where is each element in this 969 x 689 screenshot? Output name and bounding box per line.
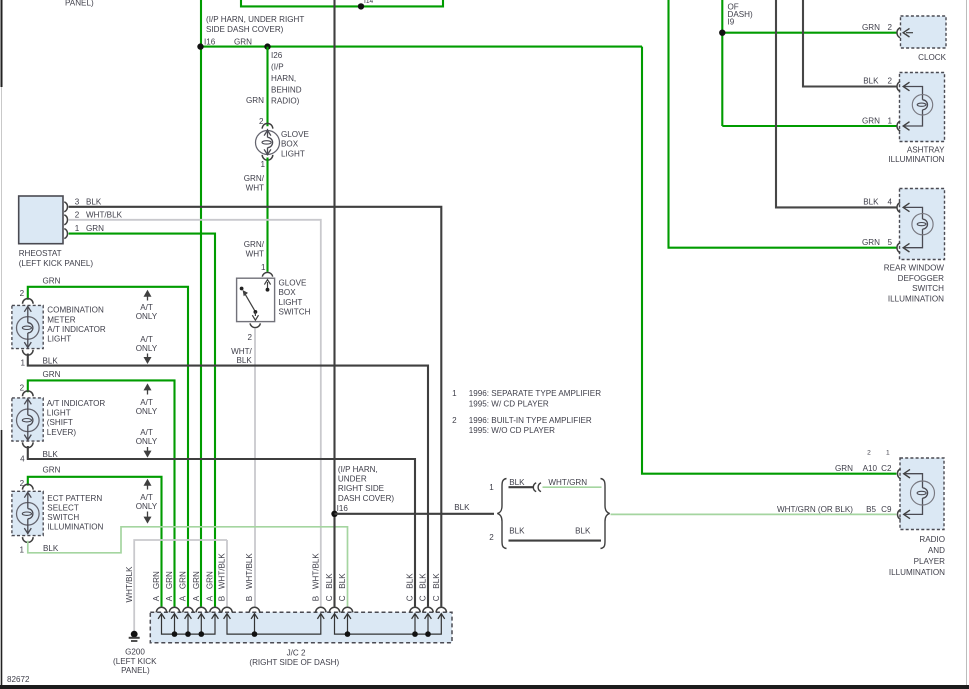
J/C2 internal bus A GRN group	[162, 614, 216, 634]
svg-text:RADIO): RADIO)	[271, 97, 300, 106]
svg-text:B WHT/BLK: B WHT/BLK	[218, 553, 227, 602]
ground G200	[131, 631, 138, 638]
svg-text:GRN: GRN	[43, 465, 61, 474]
svg-text:BEHIND: BEHIND	[271, 86, 302, 95]
svg-text:PANEL): PANEL)	[65, 0, 94, 8]
svg-text:1: 1	[261, 263, 266, 272]
svg-text:2: 2	[867, 450, 871, 457]
svg-text:PLAYER: PLAYER	[914, 557, 945, 566]
svg-text:ONLY: ONLY	[136, 437, 158, 446]
connector arc radio pin C9	[897, 509, 910, 519]
wire GRN I9 dot to clock pin2	[722, 32, 896, 34]
svg-text:G200: G200	[125, 648, 145, 657]
svg-text:GLOVE: GLOVE	[279, 279, 307, 288]
svg-text:A GRN: A GRN	[165, 571, 174, 601]
svg-text:SWITCH: SWITCH	[279, 308, 311, 317]
wire GRN vertical x642 from y46 to radio	[642, 47, 897, 474]
wire WHT/BLK G200 branch from x227 to ground	[134, 540, 227, 632]
connector arc shift lever lamp pin2	[23, 391, 34, 396]
wire BLK rheostat pin3 to x441 down to J/C2	[69, 207, 442, 607]
connector arc clock pin2	[897, 28, 913, 38]
svg-text:1995: W/ CD PLAYER: 1995: W/ CD PLAYER	[469, 399, 549, 408]
svg-text:LIGHT: LIGHT	[281, 149, 305, 158]
svg-text:BLK: BLK	[509, 478, 525, 487]
svg-text:2: 2	[452, 416, 457, 425]
svg-text:AND: AND	[928, 546, 945, 555]
connector arc rheostat pin3	[64, 202, 67, 212]
connector arc glove box light pin2	[262, 123, 273, 128]
svg-text:5: 5	[887, 238, 892, 247]
svg-text:ONLY: ONLY	[136, 312, 158, 321]
border right faint	[966, 0, 968, 685]
svg-text:1: 1	[75, 224, 80, 233]
annotation A/T ONLY down arrow section1	[147, 354, 149, 360]
lamp glove box light	[256, 129, 280, 156]
svg-text:A/T: A/T	[140, 303, 153, 312]
annotation A/T ONLY up arrow section3	[147, 483, 149, 490]
connector arc combination meter pin1	[23, 350, 34, 355]
svg-text:LIGHT: LIGHT	[279, 298, 303, 307]
svg-text:(RIGHT SIDE OF DASH): (RIGHT SIDE OF DASH)	[249, 658, 339, 667]
svg-text:A/T: A/T	[140, 398, 153, 407]
svg-text:BLK: BLK	[236, 356, 252, 365]
svg-text:A GRN: A GRN	[179, 571, 188, 601]
svg-text:1: 1	[886, 450, 890, 457]
svg-text:A GRN: A GRN	[206, 571, 215, 601]
wire GRN vertical x722.3 I9 from top	[721, 0, 723, 126]
connector arc glove box light pin1	[262, 155, 273, 160]
wire BLK from I16 dot to brace	[335, 513, 495, 515]
svg-text:SELECT: SELECT	[47, 503, 79, 512]
connector J/C2 pin A x188	[183, 607, 193, 619]
connector J/C2 pin C x347.5	[342, 607, 352, 619]
connector arc radio pin C2	[897, 469, 910, 479]
connector arc rheostat pin2	[64, 215, 67, 225]
wire BLK shift lever lamp pin4 to x415 down to J/C2	[28, 446, 415, 607]
svg-text:WHT/GRN: WHT/GRN	[548, 478, 587, 487]
connector arc defogger pin4	[897, 202, 910, 212]
connector arc glove box light switch pin1	[262, 272, 272, 276]
svg-text:C BLK: C BLK	[406, 573, 415, 601]
node glove box branch dot	[264, 43, 270, 49]
wire WHT/BLK switch to J/C2	[254, 328, 256, 606]
node I9 junction dot	[719, 30, 725, 36]
svg-text:RADIO: RADIO	[919, 535, 945, 544]
connector arc defogger pin5	[897, 243, 910, 253]
wire WHT/GRN option1	[543, 486, 602, 488]
svg-text:C2: C2	[881, 464, 892, 473]
svg-text:ILLUMINATION: ILLUMINATION	[47, 523, 103, 532]
svg-text:WHT: WHT	[246, 250, 264, 259]
connector J/C2 pin C x334.5	[329, 607, 339, 619]
svg-text:C BLK: C BLK	[338, 573, 347, 601]
svg-text:J/C 2: J/C 2	[287, 649, 306, 658]
connector J/C2 pin A x201.3	[196, 607, 206, 619]
svg-text:GRN/: GRN/	[244, 240, 265, 249]
svg-text:UNDER: UNDER	[338, 475, 367, 484]
connector arc ashtray pin1	[897, 121, 910, 131]
svg-text:REAR WINDOW: REAR WINDOW	[884, 263, 945, 272]
wire GRN combination meter pin2 to x188 down to J/C2	[28, 287, 188, 607]
wire GRN rheostat pin1 to x215 down to J/C2	[69, 234, 215, 607]
connector J/C2 pin B x254.5	[249, 607, 259, 619]
annotation A/T ONLY down arrow section2	[147, 447, 149, 453]
lamp U A/T indicator light shift lever	[12, 398, 43, 441]
svg-text:B WHT/BLK: B WHT/BLK	[312, 553, 321, 602]
svg-text:4: 4	[20, 454, 25, 463]
svg-text:HARN,: HARN,	[271, 74, 296, 83]
svg-text:C BLK: C BLK	[419, 573, 428, 601]
connector J/C2 pin B x227	[222, 607, 232, 619]
svg-text:METER: METER	[47, 315, 75, 324]
svg-text:WHT/BLK: WHT/BLK	[125, 566, 134, 603]
connector J/C2 pin C x415	[410, 607, 420, 619]
svg-text:1: 1	[19, 546, 24, 555]
svg-text:1996: SEPARATE TYPE AMPLIFIER: 1996: SEPARATE TYPE AMPLIFIER	[469, 389, 601, 398]
connector arc shift lever lamp pin4	[23, 442, 34, 447]
wire BLK option1	[509, 486, 534, 488]
svg-text:A/T: A/T	[140, 493, 153, 502]
svg-text:LIGHT: LIGHT	[47, 335, 71, 344]
lamp radio internal	[905, 474, 935, 515]
wire BLK vertical x803 from top to ashtray pin2	[803, 0, 897, 87]
border left middle faint	[1, 87, 3, 430]
connector double arc option1	[533, 483, 536, 492]
svg-text:GLOVE: GLOVE	[281, 130, 309, 139]
svg-text:4: 4	[887, 197, 892, 206]
svg-text:2: 2	[20, 289, 25, 298]
svg-text:82672: 82672	[7, 675, 30, 684]
svg-text:1: 1	[20, 359, 25, 368]
connector arc ect lamp pin1	[23, 537, 34, 542]
wire BLK ect lamp pin1 pale to x347.5 down to J/C2	[28, 527, 348, 607]
svg-text:GRN: GRN	[835, 464, 853, 473]
svg-text:DASH COVER): DASH COVER)	[338, 494, 395, 503]
svg-text:GRN: GRN	[246, 96, 264, 105]
svg-text:WHT/BLK: WHT/BLK	[86, 211, 123, 220]
svg-text:ONLY: ONLY	[136, 407, 158, 416]
svg-text:GRN/: GRN/	[244, 174, 265, 183]
wire GRN vertical to glove box light	[266, 47, 268, 127]
component ashtray illumination box	[900, 73, 945, 142]
border bottom bar	[0, 685, 969, 689]
svg-text:1995: W/O CD PLAYER: 1995: W/O CD PLAYER	[469, 426, 555, 435]
svg-text:PANEL): PANEL)	[121, 666, 150, 675]
svg-text:C BLK: C BLK	[432, 573, 441, 601]
svg-text:1: 1	[260, 160, 265, 169]
svg-text:WHT: WHT	[246, 184, 264, 193]
svg-text:GRN: GRN	[86, 224, 104, 233]
wire BLK combination meter pin1 to x428 down to J/C2	[28, 354, 428, 607]
svg-text:A/T: A/T	[140, 428, 153, 437]
svg-text:DEFOGGER: DEFOGGER	[898, 274, 944, 283]
svg-text:WHT/GRN (OR BLK): WHT/GRN (OR BLK)	[777, 505, 853, 514]
svg-text:2: 2	[75, 211, 80, 220]
brace right	[601, 479, 610, 549]
svg-text:LIGHT: LIGHT	[47, 409, 71, 418]
svg-text:GRN: GRN	[234, 38, 252, 47]
svg-text:BLK: BLK	[863, 77, 879, 86]
svg-text:I14: I14	[364, 0, 373, 5]
wire BLK option2	[509, 540, 602, 542]
svg-text:C9: C9	[881, 505, 892, 514]
svg-text:(SHIFT: (SHIFT	[47, 418, 73, 427]
connector J/C2 pin A x161.5	[156, 607, 166, 619]
svg-text:1996: BUILT-IN TYPE AMPLIFIER: 1996: BUILT-IN TYPE AMPLIFIER	[469, 416, 592, 425]
svg-text:GRN: GRN	[43, 370, 61, 379]
svg-text:B5: B5	[866, 505, 876, 514]
lamp defogger internal	[905, 207, 934, 247]
switch pivot dot	[254, 310, 258, 314]
svg-text:GRN: GRN	[862, 238, 880, 247]
svg-text:1: 1	[887, 117, 892, 126]
svg-text:ILLUMINATION: ILLUMINATION	[888, 155, 944, 164]
lamp ashtray internal	[905, 87, 933, 127]
svg-text:A/T: A/T	[140, 335, 153, 344]
svg-text:BLK: BLK	[863, 197, 879, 206]
wire GRN top net horizontal y6	[241, 0, 443, 6]
svg-text:B WHT/BLK: B WHT/BLK	[245, 553, 254, 602]
wire BLK vertical x776 from top to defogger pin4	[776, 0, 897, 207]
svg-text:(LEFT KICK: (LEFT KICK	[113, 657, 157, 666]
svg-text:C BLK: C BLK	[325, 573, 334, 601]
svg-text:LEVER): LEVER)	[47, 428, 77, 437]
svg-text:BLK: BLK	[86, 197, 102, 206]
connector arc ect lamp pin2	[23, 484, 34, 489]
svg-text:2: 2	[489, 533, 494, 542]
connector J/C2 pin B x320.8	[316, 607, 326, 619]
connector arc glove box light switch pin2	[250, 323, 260, 327]
J/C2 internal bus B WHT/BLK group	[227, 614, 321, 634]
svg-text:GRN: GRN	[862, 117, 880, 126]
component rear window defogger switch illumination box	[900, 189, 945, 260]
svg-text:A GRN: A GRN	[192, 571, 201, 601]
svg-text:I16: I16	[204, 38, 216, 47]
wire GRN vertical I16 x201 from top to J/C2	[200, 0, 202, 607]
node I16 lower junction dot	[331, 511, 337, 517]
component clock box	[901, 16, 947, 48]
svg-text:GRN: GRN	[43, 277, 61, 286]
switch contact dot left	[240, 287, 244, 291]
wire GRN/WHT from lamp to switch	[266, 158, 268, 272]
switch U glove box light switch box	[237, 278, 275, 321]
svg-text:(LEFT KICK PANEL): (LEFT KICK PANEL)	[19, 259, 94, 268]
svg-text:ONLY: ONLY	[136, 502, 158, 511]
svg-text:ASHTRAY: ASHTRAY	[907, 145, 945, 154]
svg-text:ILLUMINATION: ILLUMINATION	[888, 294, 944, 303]
J/C2 internal bus C BLK group	[335, 614, 442, 634]
svg-text:2: 2	[247, 333, 252, 342]
connector J/C2 pin A x215	[210, 607, 220, 619]
connector arc combination meter pin2	[23, 299, 34, 304]
wire GRN ect lamp pin2 to x161.5 down to J/C2	[28, 477, 162, 607]
svg-text:BLK: BLK	[575, 526, 591, 535]
wire GRN shift lever lamp pin2 to x174.5 down to J/C2	[28, 380, 175, 606]
svg-text:3: 3	[75, 197, 80, 206]
wire WHT/GRN (OR BLK) output to radio	[611, 513, 897, 515]
connector J/C2 pin C x441.3	[436, 607, 446, 619]
svg-text:ECT PATTERN: ECT PATTERN	[47, 494, 102, 503]
svg-text:I16: I16	[337, 504, 349, 513]
svg-text:SWITCH: SWITCH	[912, 284, 944, 293]
annotation A/T ONLY up arrow section2	[147, 388, 149, 395]
node I14 junction dot	[358, 3, 364, 9]
switch contact stub pin1 with up arrow	[267, 282, 269, 290]
svg-text:BLK: BLK	[454, 503, 470, 512]
svg-text:I9: I9	[728, 18, 735, 27]
svg-text:2: 2	[887, 23, 892, 32]
svg-text:1: 1	[489, 483, 494, 492]
svg-text:A/T INDICATOR: A/T INDICATOR	[47, 325, 106, 334]
svg-text:1: 1	[452, 389, 457, 398]
svg-text:SWITCH: SWITCH	[47, 513, 79, 522]
switch stub pin2 with down arrow	[254, 312, 256, 316]
wire WHT/BLK vertical x227 to J/C2	[226, 540, 228, 607]
svg-text:BOX: BOX	[281, 140, 299, 149]
svg-text:WHT/: WHT/	[231, 347, 252, 356]
brace left	[497, 479, 506, 549]
connector arc rheostat pin1	[64, 229, 67, 239]
svg-text:RHEOSTAT: RHEOSTAT	[19, 249, 62, 258]
border left top segment	[1, 0, 3, 87]
svg-text:(I/P: (I/P	[271, 63, 284, 72]
svg-text:ONLY: ONLY	[136, 344, 158, 353]
wire WHT/BLK rheostat pin2 to x320.8 down to J/C2	[69, 220, 321, 607]
node I16 junction dot	[197, 43, 203, 49]
svg-text:A/T INDICATOR: A/T INDICATOR	[47, 399, 106, 408]
svg-text:CLOCK: CLOCK	[918, 53, 946, 62]
svg-text:BLK: BLK	[43, 450, 59, 459]
svg-text:I26: I26	[271, 51, 283, 60]
border left bottom segment	[1, 430, 3, 685]
svg-text:(I/P HARN,: (I/P HARN,	[338, 465, 378, 474]
svg-text:A10: A10	[863, 464, 878, 473]
junction block J/C2 box	[150, 612, 452, 642]
svg-text:2: 2	[887, 77, 892, 86]
svg-text:(I/P HARN, UNDER RIGHT: (I/P HARN, UNDER RIGHT	[206, 15, 304, 24]
svg-text:RIGHT SIDE: RIGHT SIDE	[338, 484, 385, 493]
svg-text:BLK: BLK	[509, 526, 525, 535]
svg-text:2: 2	[20, 384, 25, 393]
connector J/C2 pin C x428	[423, 607, 433, 619]
wire GRN vertical x668.5 from top to defogger pin5	[669, 0, 897, 248]
rheostat box	[19, 196, 63, 244]
wire GRN I9 to ashtray pin1	[722, 125, 896, 127]
annotation A/T ONLY up arrow section1	[147, 294, 149, 301]
svg-text:BLK: BLK	[43, 357, 59, 366]
connector arc ashtray pin2	[897, 82, 910, 92]
annotation A/T ONLY down arrow section3	[147, 512, 149, 519]
svg-text:A GRN: A GRN	[152, 571, 161, 601]
wire BLK vertical x334.5 from top to J/C2	[333, 0, 335, 607]
connector J/C2 pin A x174.5	[169, 607, 179, 619]
svg-text:BLK: BLK	[43, 544, 59, 553]
lamp U ECT pattern select switch illumination	[12, 491, 43, 535]
svg-text:ILLUMINATION: ILLUMINATION	[889, 568, 945, 577]
svg-text:COMBINATION: COMBINATION	[47, 306, 104, 315]
svg-text:GRN: GRN	[862, 23, 880, 32]
svg-text:SIDE DASH COVER): SIDE DASH COVER)	[206, 25, 284, 34]
lamp U combination meter A/T indicator light	[12, 305, 43, 348]
wire GRN horizontal y46.6 from I16 to x642	[201, 46, 642, 48]
svg-text:BOX: BOX	[279, 288, 297, 297]
switch lever	[244, 293, 255, 312]
component radio and player illumination box	[900, 458, 944, 530]
